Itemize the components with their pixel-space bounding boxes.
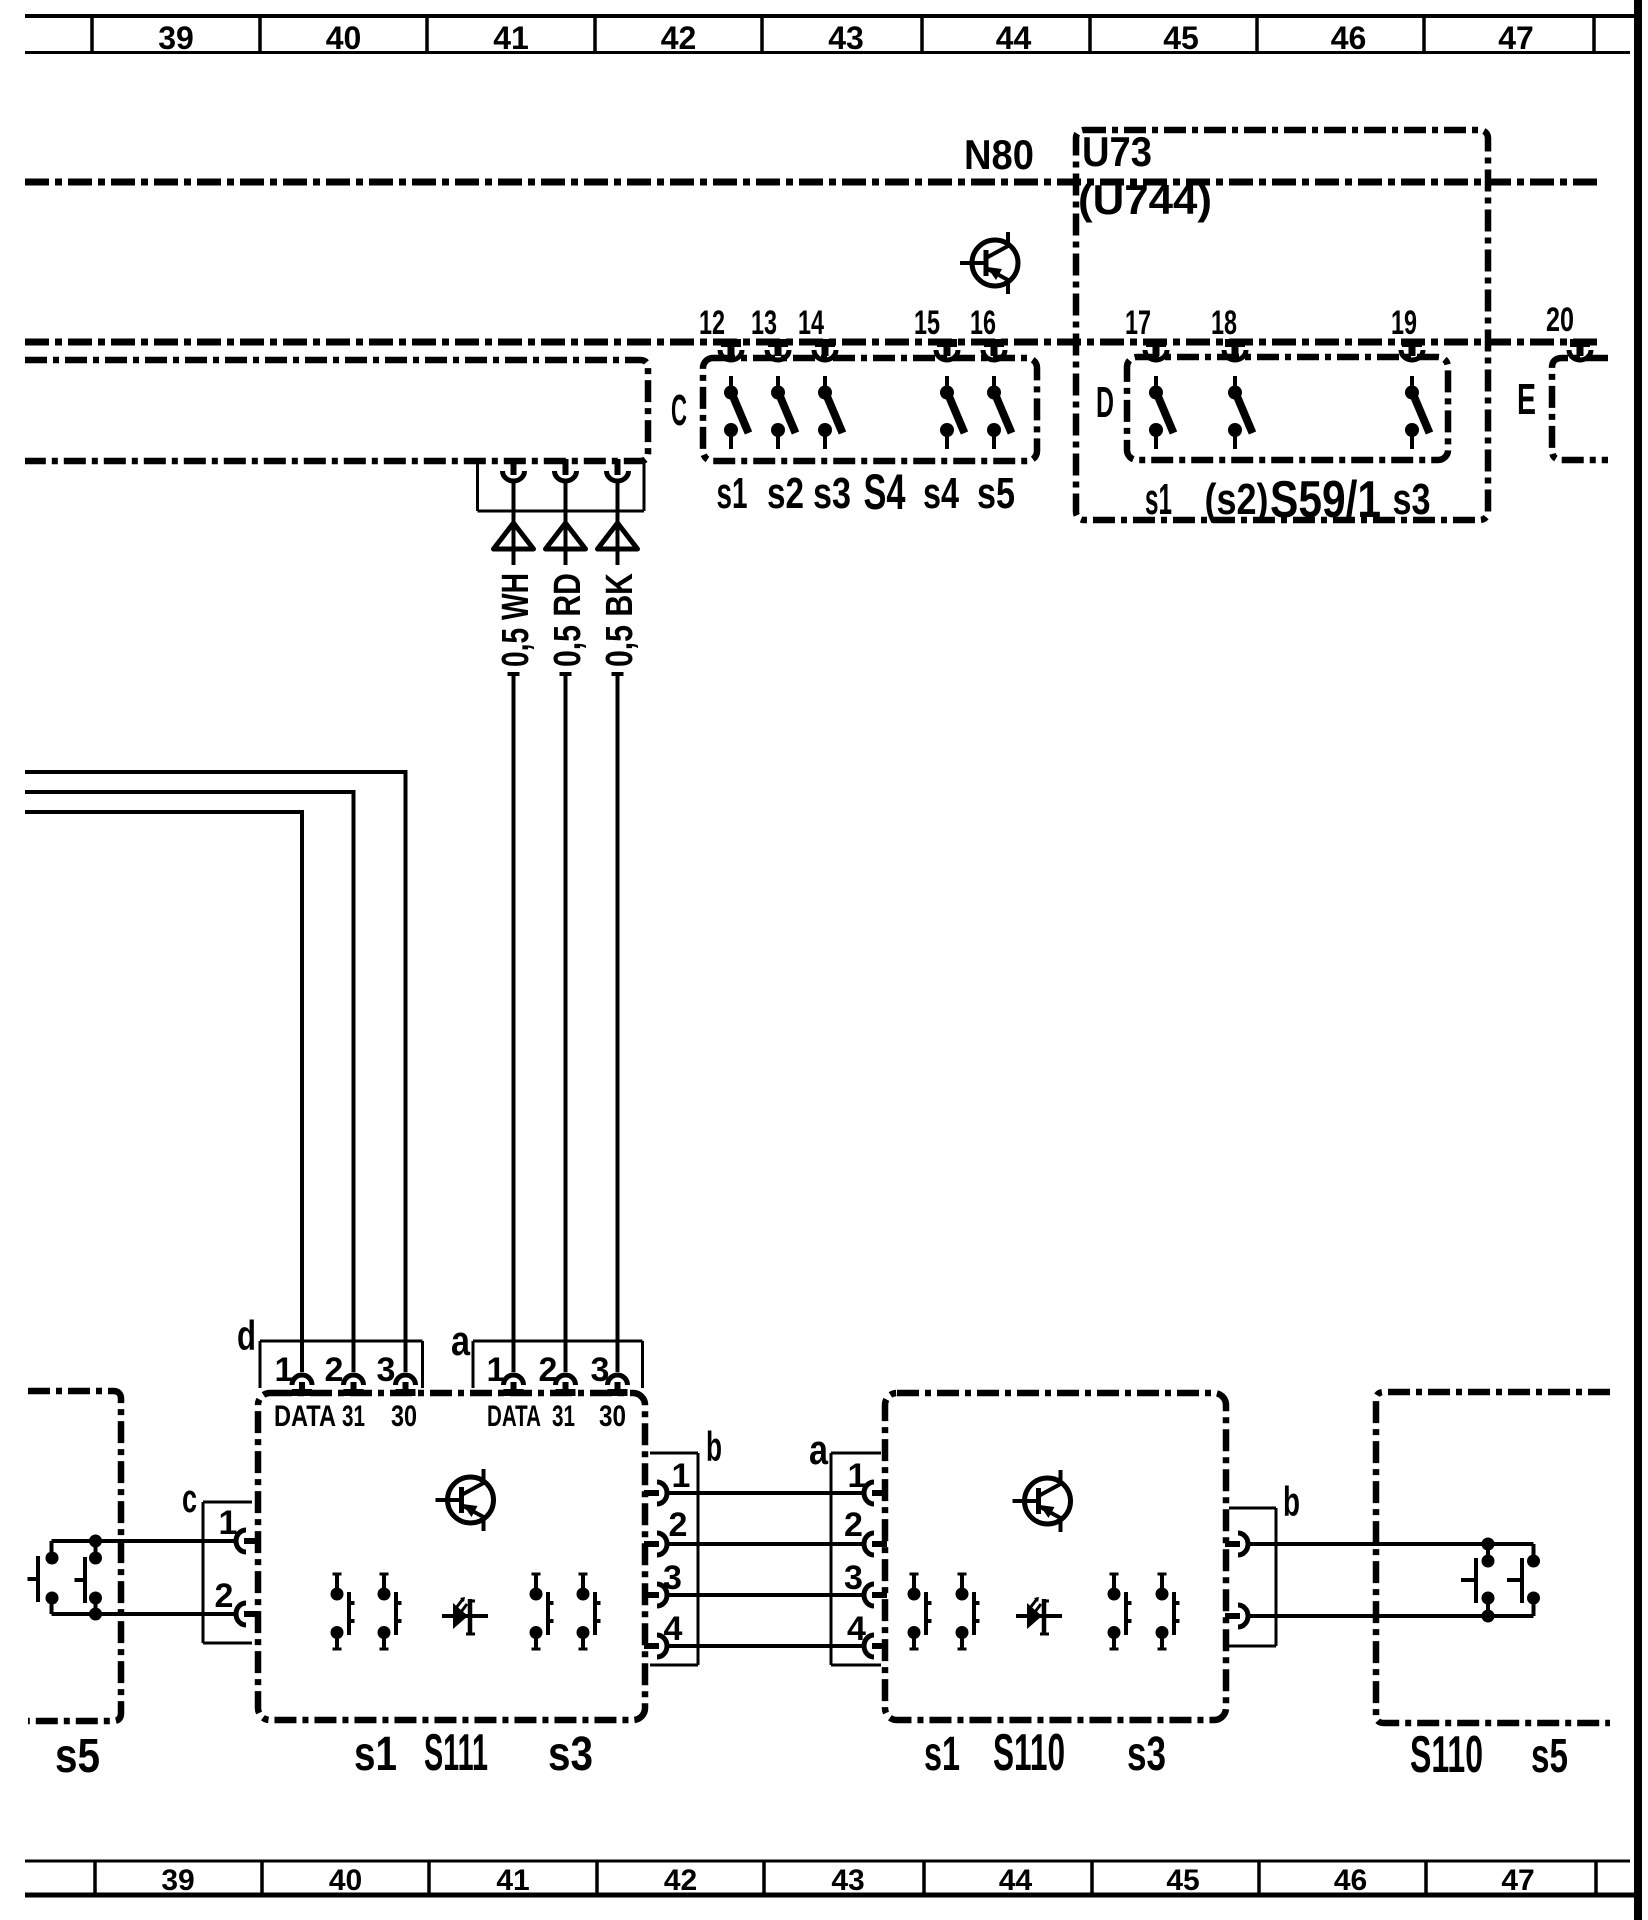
svg-text:45: 45 (1166, 1864, 1199, 1897)
svg-text:12: 12 (699, 304, 725, 342)
switch contact s1 (D box) (1149, 376, 1174, 449)
pin 20 (1546, 301, 1591, 360)
pin b3 (S111) (644, 1559, 682, 1606)
switch unit S110 box (885, 1393, 1226, 1720)
svg-text:a: a (809, 1426, 829, 1473)
connector bracket below box (478, 461, 645, 511)
svg-text:42: 42 (661, 20, 697, 56)
svg-text:0,5 RD: 0,5 RD (547, 573, 589, 667)
svg-text:2: 2 (844, 1506, 863, 1544)
wire WH lower segment to pin a1 (508, 674, 520, 1372)
switch unit S111 box (258, 1393, 645, 1720)
svg-text:47: 47 (1501, 1864, 1534, 1897)
svg-text:c: c (182, 1477, 197, 1521)
svg-text:DATA: DATA (487, 1400, 541, 1433)
wire b1 to right s5 (1247, 1542, 1534, 1546)
switch contact s3 (C box) (818, 376, 843, 449)
svg-text:S4: S4 (864, 464, 906, 520)
svg-text:S59/1: S59/1 (1270, 471, 1381, 529)
svg-text:31: 31 (342, 1400, 365, 1433)
svg-text:0,5 WH: 0,5 WH (495, 573, 537, 667)
wire WH upper segment (512, 481, 516, 565)
switch contact s4 (C box) (940, 376, 965, 449)
pin d2 (325, 1351, 364, 1396)
push contact 1 (S110) (908, 1574, 932, 1649)
push button pair (right s5) (1461, 1538, 1540, 1623)
svg-text:2: 2 (215, 1577, 234, 1615)
push contact 2 (S110) (956, 1574, 980, 1649)
svg-text:d: d (237, 1312, 256, 1359)
wire b4-a4 (666, 1644, 866, 1648)
svg-text:S110: S110 (993, 1724, 1065, 1782)
svg-text:U73: U73 (1082, 128, 1152, 175)
svg-text:(U744): (U744) (1078, 176, 1212, 223)
connector sleeve (RD wire) (546, 523, 586, 549)
switch contact s1 (C box) (724, 376, 749, 449)
wire b3-a3 (666, 1593, 866, 1597)
wire RD lower segment to pin a2 (560, 674, 572, 1372)
svg-text:46: 46 (1334, 1864, 1367, 1897)
svg-text:43: 43 (828, 20, 864, 56)
control unit U73 (U744) box (1076, 130, 1488, 520)
svg-text:31: 31 (552, 1400, 575, 1433)
wire to pin d3 (25, 772, 406, 1372)
svg-text:s1: s1 (717, 469, 748, 518)
pin d1 (275, 1351, 312, 1396)
svg-text:19: 19 (1391, 304, 1417, 342)
wire to pin d2 (25, 792, 354, 1372)
push button pair (left s5) (28, 1535, 103, 1621)
transistor symbol (N80) (960, 232, 1018, 294)
pin a1 (487, 1351, 524, 1396)
push contact 1 (S111) (331, 1574, 355, 1649)
svg-text:3: 3 (844, 1559, 863, 1597)
push contact 2 (S111) (378, 1574, 402, 1649)
wire to pin d1 (25, 812, 302, 1372)
svg-text:E: E (1517, 375, 1536, 424)
pin 19 (1391, 304, 1423, 360)
pin b2 (S110 right) (1225, 1605, 1248, 1627)
svg-text:14: 14 (798, 304, 824, 342)
svg-text:s1: s1 (924, 1728, 960, 1781)
connector bracket a (473, 1341, 643, 1388)
pin d3 (377, 1351, 416, 1396)
svg-text:13: 13 (751, 304, 777, 342)
svg-text:40: 40 (326, 20, 362, 56)
pin a1 (S110) (848, 1457, 887, 1504)
svg-text:b: b (1283, 1478, 1300, 1525)
bus wire upper (dash-dot) (25, 179, 1600, 186)
svg-text:30: 30 (391, 1400, 417, 1433)
svg-text:s4: s4 (923, 469, 959, 518)
pin 15 (914, 304, 958, 360)
svg-text:2: 2 (669, 1506, 688, 1544)
pin 13 (751, 304, 789, 360)
pin c2 (215, 1577, 259, 1625)
svg-text:s1: s1 (1145, 475, 1172, 524)
svg-text:C: C (671, 386, 687, 435)
svg-text:2: 2 (325, 1351, 344, 1389)
wire b1-a1 (666, 1491, 866, 1495)
svg-text:D: D (1096, 378, 1114, 427)
svg-text:44: 44 (999, 1864, 1033, 1897)
pin a2 (539, 1351, 576, 1396)
svg-text:17: 17 (1125, 304, 1151, 342)
svg-text:20: 20 (1546, 301, 1574, 339)
svg-text:41: 41 (493, 20, 529, 56)
push contact 3 (S110) (1108, 1574, 1132, 1649)
connector bracket b (S110 right) (1229, 1508, 1276, 1646)
svg-text:(s2): (s2) (1205, 475, 1269, 524)
svg-text:s5: s5 (1531, 1730, 1568, 1783)
svg-text:N80: N80 (964, 131, 1034, 178)
pin b4 (S111) (644, 1610, 683, 1657)
component box (open left, top) (25, 360, 648, 461)
pin 18 (1211, 304, 1246, 360)
pin a4 (S110) (847, 1610, 887, 1657)
svg-text:b: b (706, 1423, 722, 1470)
pin (BK wire) (607, 459, 629, 481)
connector bracket a (S110) (831, 1453, 881, 1665)
LED diode (S110) (1016, 1597, 1062, 1634)
wire s5 to pin c2 (52, 1612, 237, 1616)
connector box E (1552, 358, 1608, 460)
push contact 4 (S110) (1156, 1574, 1180, 1649)
svg-text:16: 16 (970, 304, 996, 342)
svg-text:42: 42 (664, 1864, 697, 1897)
connector box C (703, 358, 1037, 461)
pin 17 (1125, 304, 1167, 360)
transistor symbol (S110) (1013, 1470, 1071, 1532)
svg-text:s3: s3 (813, 469, 851, 518)
wire s5 to pin c1 (52, 1539, 237, 1543)
svg-text:46: 46 (1331, 20, 1367, 56)
svg-text:39: 39 (158, 20, 194, 56)
svg-text:3: 3 (377, 1351, 396, 1389)
connector sleeve (BK wire) (598, 523, 638, 549)
pin 16 (970, 304, 1005, 360)
svg-text:s5: s5 (55, 1730, 100, 1783)
wire BK upper segment (616, 481, 620, 565)
svg-text:40: 40 (329, 1864, 362, 1897)
svg-text:43: 43 (831, 1864, 864, 1897)
svg-text:s3: s3 (548, 1728, 593, 1781)
wire RD upper segment (564, 481, 568, 565)
svg-text:39: 39 (161, 1864, 194, 1897)
switch contact s3 (D box) (1405, 376, 1430, 449)
svg-text:s3: s3 (1393, 475, 1431, 524)
LED diode (S111) (442, 1597, 488, 1634)
svg-text:s1: s1 (354, 1728, 397, 1781)
svg-text:S110: S110 (1410, 1726, 1483, 1784)
switch contact s5 (C box) (987, 376, 1012, 449)
pin b2 (S111) (644, 1506, 687, 1555)
wire b2-a2 (666, 1542, 866, 1546)
svg-text:30: 30 (599, 1400, 626, 1433)
pin 14 (798, 304, 836, 360)
connector bracket d (260, 1341, 423, 1388)
svg-text:s5: s5 (977, 469, 1015, 518)
pin b1 (S110 right) (1225, 1533, 1248, 1555)
svg-text:0,5 BK: 0,5 BK (599, 573, 641, 667)
push contact 3 (S111) (530, 1574, 554, 1649)
connector bracket c (203, 1502, 252, 1643)
pin c1 (219, 1504, 259, 1552)
svg-text:18: 18 (1211, 304, 1237, 342)
switch box s5 (open right) (1376, 1392, 1610, 1723)
transistor symbol (S111) (436, 1469, 494, 1531)
connector sleeve (WH wire) (494, 523, 534, 549)
svg-text:s3: s3 (1127, 1728, 1166, 1781)
svg-text:41: 41 (496, 1864, 529, 1897)
wire BK lower segment to pin a3 (612, 674, 624, 1372)
bottom coordinate ruler (columns 39-47) (25, 1861, 1634, 1897)
pin a2 (S110) (844, 1506, 887, 1555)
wire b2 to right s5 (1247, 1614, 1534, 1618)
pin (RD wire) (555, 459, 577, 481)
svg-text:47: 47 (1498, 20, 1534, 56)
svg-text:1: 1 (672, 1457, 691, 1495)
pin a3 (591, 1351, 628, 1396)
svg-text:DATA: DATA (274, 1400, 336, 1433)
svg-text:a: a (451, 1317, 471, 1364)
svg-text:15: 15 (914, 304, 940, 342)
push contact 4 (S111) (577, 1574, 601, 1649)
pin 12 (699, 304, 742, 360)
switch contact s2 (C box) (771, 376, 796, 449)
svg-text:s2: s2 (767, 469, 804, 518)
connector box D (1127, 357, 1448, 460)
pin (WH wire) (503, 459, 525, 481)
svg-text:44: 44 (996, 20, 1032, 56)
pin b1 (S111) (644, 1457, 690, 1504)
connector bracket b (S111) (650, 1453, 698, 1665)
pin a3 (S110) (844, 1559, 887, 1606)
svg-text:S111: S111 (424, 1724, 488, 1782)
svg-text:45: 45 (1163, 20, 1199, 56)
switch contact s2 (D box) (1228, 376, 1253, 449)
bus wire lower (dash-dot) (25, 339, 1599, 346)
switch box s5 (open left) (28, 1391, 121, 1721)
top coordinate ruler (columns 39-47) (25, 16, 1634, 56)
